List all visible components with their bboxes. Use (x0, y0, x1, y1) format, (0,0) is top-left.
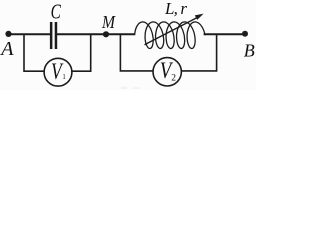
wire A to capacitor (9, 33, 51, 35)
svg-text:L, r: L, r (164, 0, 187, 18)
faint artifact marks (121, 87, 128, 89)
svg-text:1: 1 (62, 74, 65, 81)
voltmeter V2 (153, 58, 181, 86)
wire coil to B (204, 33, 245, 35)
wire V2 loop left (120, 34, 153, 71)
svg-text:B: B (244, 41, 255, 61)
capacitor C plate 1 (50, 22, 53, 49)
wire V1 loop right (72, 34, 91, 71)
wire V2 loop right (182, 34, 217, 71)
node M (103, 31, 109, 37)
node A (5, 31, 11, 37)
svg-text:C: C (51, 0, 62, 24)
variable arrow (145, 17, 198, 45)
wire capacitor to coil (57, 33, 135, 35)
voltmeter V1 (44, 58, 72, 86)
svg-text:2: 2 (171, 73, 176, 83)
inductor L coil (134, 22, 206, 49)
capacitor C plate 2 (55, 22, 58, 49)
wire V1 loop left (24, 34, 44, 71)
svg-text:M: M (101, 12, 116, 32)
svg-text:A: A (0, 38, 14, 60)
node B (242, 31, 248, 37)
